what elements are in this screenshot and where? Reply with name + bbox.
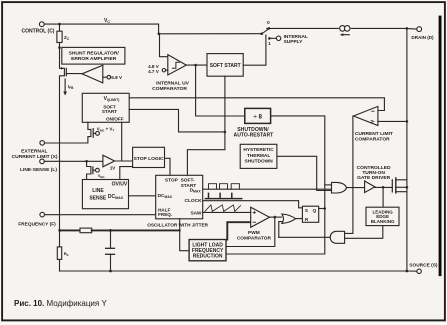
svg-text:START: START — [181, 183, 197, 189]
wire drain rail — [267, 27, 339, 29]
impedance Zc — [57, 24, 62, 47]
pin LINE-SENSE (L) — [40, 159, 103, 164]
node junction at Zc top — [58, 23, 61, 26]
svg-text:FREQ.: FREQ. — [158, 212, 172, 217]
svg-text:SOFT START: SOFT START — [210, 63, 241, 69]
node junction control filter — [58, 229, 61, 232]
svg-text:EXTERNAL: EXTERNAL — [21, 148, 47, 154]
svg-text:STOP: STOP — [165, 178, 179, 184]
node junction capacitor top — [109, 229, 112, 232]
wire Vc line to switch — [60, 24, 262, 34]
svg-text:DRAIN (D): DRAIN (D) — [411, 35, 434, 40]
box VI(LIMIT) SOFT START ON/OFF — [82, 93, 129, 122]
wire CLOCK output to latch S — [203, 201, 303, 208]
svg-text:SUPPLY: SUPPLY — [284, 39, 304, 45]
wire SAW output to PWM comparator — [203, 211, 251, 213]
transistor Q1 shunt follower — [61, 67, 82, 76]
svg-text:PWM: PWM — [248, 230, 260, 236]
svg-text:CLOCK: CLOCK — [185, 198, 203, 204]
node junction drain — [406, 27, 409, 30]
label line sense box — [89, 188, 107, 201]
svg-text:COMPARATOR: COMPARATOR — [237, 235, 272, 241]
svg-text:COMPARATOR: COMPARATOR — [152, 86, 187, 92]
wire soft start output to switch — [243, 35, 266, 65]
and-gate main gating — [332, 182, 365, 193]
svg-text:AUTO-RESTART: AUTO-RESTART — [234, 133, 275, 139]
op-amp error amplifier — [82, 65, 111, 83]
svg-text:ON/OFF: ON/OFF — [106, 116, 124, 121]
node junction soft-start bus — [224, 131, 227, 134]
comparator 1V line sense — [103, 155, 133, 167]
comparator PWM — [251, 207, 270, 227]
current source high-voltage supply — [340, 26, 350, 36]
node junction Vc/UV branch — [158, 33, 161, 36]
pin EXTERNAL CURRENT LIMIT (X) — [40, 141, 88, 146]
wire branch to AND gate top input — [325, 184, 332, 186]
svg-text:Рис. 10. Модификация Y: Рис. 10. Модификация Y — [14, 299, 107, 308]
svg-text:1: 1 — [268, 41, 271, 46]
wire current limit comparator to AND — [345, 116, 354, 233]
svg-text:THERMAL: THERMAL — [247, 153, 271, 159]
resistor series filter — [60, 228, 180, 233]
svg-text:÷ 8: ÷ 8 — [253, 114, 262, 121]
svg-text:REDUCTION: REDUCTION — [193, 254, 223, 260]
label thermal shutdown box — [243, 147, 274, 165]
box divide by 8 — [245, 108, 271, 123]
node switch contact 0 — [268, 27, 271, 30]
wire thick control feed to PWM comparator — [227, 222, 250, 239]
wire soft start bottom bus — [187, 76, 225, 175]
box LINE SENSE — [82, 180, 128, 209]
svg-text:1V: 1V — [110, 166, 115, 171]
label oscillator half freq — [158, 208, 172, 217]
svg-text:GATE DRIVER: GATE DRIVER — [357, 175, 391, 181]
wire OV/UV to stop logic — [120, 167, 133, 180]
wire divide-by-8 output bus — [226, 116, 325, 254]
pin DRAIN (D) — [407, 27, 422, 32]
svg-text:SENSE: SENSE — [89, 195, 107, 201]
label oscillator soft-start input — [181, 178, 197, 189]
box HYSTERETIC THERMAL SHUTDOWN — [240, 144, 277, 168]
svg-text:SHUNT REGULATOR/: SHUNT REGULATOR/ — [69, 50, 120, 56]
wire PWM output — [270, 216, 282, 218]
label current limit comparator — [355, 131, 393, 143]
node junction PWM output — [274, 216, 277, 219]
node junction Q feedback — [323, 207, 326, 210]
box SOFT START — [207, 54, 243, 77]
wire UV output to divide-by-8 — [196, 65, 245, 116]
buffer controlled turn-on gate driver — [365, 181, 393, 193]
wire driver node to leading edge blanking — [382, 187, 384, 207]
label internal supply — [284, 34, 308, 45]
pin SOURCE (S) — [407, 269, 421, 273]
label X pin — [12, 148, 58, 160]
wire source rail — [60, 270, 407, 272]
label gate driver — [357, 165, 391, 181]
wire line A VI(LIMIT) to current limit comparator — [129, 98, 384, 111]
box SHUNT REGULATOR/ERROR AMPLIFIER — [62, 47, 125, 64]
node junction driver output — [382, 186, 385, 189]
svg-text:INTERNAL UV: INTERNAL UV — [156, 80, 190, 86]
node switch contact 1 — [268, 36, 281, 40]
node junction source — [406, 270, 409, 273]
pin CONTROL (C) — [39, 22, 59, 27]
svg-text:S: S — [305, 208, 308, 213]
svg-text:5.8 V: 5.8 V — [111, 75, 123, 80]
wire drain rail right — [351, 27, 407, 29]
wire DMAX output to AND gate — [203, 188, 332, 190]
svg-text:SOURCE (S): SOURCE (S) — [409, 262, 438, 268]
label PWM comparator — [237, 230, 272, 242]
wire line B VI(LIMIT) to soft-start bus — [129, 109, 225, 131]
wire drain vertical bus — [406, 28, 408, 271]
box LIGHT LOAD FREQUENCY REDUCTION — [189, 240, 226, 261]
box LEADING EDGE BLANKING — [366, 207, 399, 225]
svg-text:CURRENT LIMIT: CURRENT LIMIT — [355, 131, 393, 137]
svg-text:SHUTDOWN: SHUTDOWN — [244, 159, 273, 165]
svg-text:FREQUENCY (F): FREQUENCY (F) — [18, 222, 56, 228]
node junction current sense — [406, 120, 409, 123]
svg-text:COMPARATOR: COMPARATOR — [355, 136, 390, 142]
transistor Q2 current-limit adjust — [88, 122, 100, 143]
svg-text:SOFT-: SOFT- — [181, 178, 196, 184]
wire stop logic to oscillator — [165, 158, 171, 175]
svg-text:START: START — [102, 109, 117, 114]
label leading edge blanking — [371, 210, 395, 225]
switch supply select arm — [260, 29, 268, 35]
and-gate current limit blanking (mirrored) — [279, 231, 345, 243]
svg-text:ERROR AMPLIFIER: ERROR AMPLIFIER — [71, 56, 117, 62]
comparator current limit — [354, 106, 407, 125]
svg-text:SAW: SAW — [190, 210, 201, 216]
svg-text:OSCILLATOR WITH JITTER: OSCILLATOR WITH JITTER — [147, 223, 208, 228]
label internal UV comparator — [152, 80, 190, 92]
wire control current vertical bus — [60, 48, 65, 231]
wire latch Q output — [319, 208, 325, 210]
svg-text:OV/UV: OV/UV — [112, 181, 128, 187]
flip-flop S/R latch — [302, 206, 318, 222]
svg-text:HYSTERETIC: HYSTERETIC — [243, 147, 274, 153]
label VI(LIMIT) box — [102, 96, 124, 121]
svg-text:TURN-ON: TURN-ON — [362, 170, 385, 176]
svg-text:0: 0 — [267, 20, 270, 25]
or-gate current limit OR — [279, 214, 303, 237]
wire UV comparator output — [186, 64, 207, 66]
svg-text:STOP LOGIC: STOP LOGIC — [134, 156, 164, 162]
svg-text:4.7 V: 4.7 V — [148, 69, 160, 74]
transistor Q3 line sense — [87, 161, 100, 179]
current arrow IFB — [63, 79, 67, 96]
svg-text:CONTROL (C): CONTROL (C) — [22, 28, 55, 34]
label shunt regulator box — [69, 50, 120, 62]
node junction on L line — [85, 160, 88, 163]
svg-text:LINE-SENSE (L): LINE-SENSE (L) — [20, 167, 57, 173]
wire DCMAX to oscillator — [129, 195, 156, 197]
node junction below Zc — [58, 46, 61, 49]
label UV thresholds — [148, 64, 160, 74]
waveform CLOCK pulses — [205, 193, 241, 198]
svg-text:CURRENT LIMIT (X): CURRENT LIMIT (X) — [12, 154, 58, 160]
wire leading edge blanking to AND — [345, 226, 383, 239]
box OSCILLATOR — [156, 175, 203, 219]
decorative black bar right — [439, 16, 442, 277]
node junction MOSFET body — [406, 186, 409, 189]
svg-text:BLANKING: BLANKING — [371, 219, 395, 224]
wire PWM output to frequency reduction — [226, 217, 275, 246]
resistor RE — [57, 230, 61, 271]
svg-text:Q: Q — [313, 208, 317, 213]
pin FREQUENCY (F) — [40, 212, 156, 217]
capacitor filter — [106, 231, 115, 271]
box STOP LOGIC — [133, 147, 165, 167]
node junction UV output — [194, 64, 197, 67]
node junction capacitor bottom — [109, 270, 112, 273]
wire thermal shutdown to AND gate — [277, 156, 331, 190]
label shutdown auto-restart — [234, 127, 275, 138]
svg-text:LINE: LINE — [92, 188, 104, 194]
waveform SAW sawtooth — [205, 205, 241, 212]
transistor M1 power MOSFET — [392, 178, 407, 193]
comparator internal UV — [162, 55, 186, 75]
wire oscillator to frequency reduction — [180, 219, 189, 251]
label light load frequency reduction — [192, 242, 224, 259]
waveform DMAX pulses — [209, 184, 240, 190]
wire VI(LIMIT) to stop logic — [121, 122, 123, 161]
wire Vc sense riser to UV comparator — [160, 34, 172, 57]
